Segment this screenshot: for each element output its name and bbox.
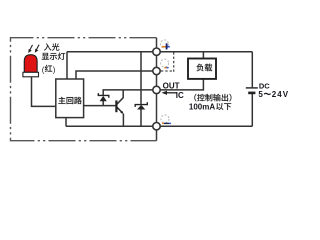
wire zener D2 anode to 0V rail	[140, 109, 142, 126]
terminal node 4	[153, 123, 160, 130]
wire 0V rail to battery minus	[66, 125, 252, 127]
wire main-circuit bottom to 0V rail	[65, 118, 67, 127]
annotation dashed circle at terminal 4	[161, 115, 169, 123]
enclosure right-side terminal bus	[156, 38, 158, 141]
wire terminal 2 to main-circuit top	[76, 71, 157, 79]
sensor enclosure dash-dot border	[11, 38, 157, 141]
svg-text:IC: IC	[176, 91, 184, 100]
wire battery plus lead	[251, 52, 253, 88]
wire +V rail from node A to battery	[67, 51, 252, 53]
label 入光	[44, 43, 51, 50]
load box 负载	[188, 59, 216, 79]
polarity label minus at terminal 4	[162, 123, 171, 124]
svg-text:): )	[53, 65, 56, 74]
wire OUT rail (collector to terminal 3 and load)	[103, 79, 203, 96]
terminal node 3	[153, 86, 160, 93]
svg-text:100mA: 100mA	[189, 102, 215, 111]
transistor Q1 (NPN output)	[116, 100, 123, 114]
svg-text:5: 5	[258, 90, 263, 99]
battery DC source plus plate	[246, 87, 258, 89]
wire battery minus lead	[251, 94, 253, 127]
annotation dashed circle at terminal 1	[160, 40, 168, 48]
wire zener D2 branch from +V rail	[140, 52, 142, 104]
svg-text:24V: 24V	[272, 90, 289, 99]
main circuit block U1 主回路	[56, 79, 84, 118]
dashed optional load link from terminal 2	[161, 52, 174, 72]
zener D1 anode lead	[102, 101, 104, 106]
svg-text:OUT: OUT	[163, 82, 180, 91]
wire base of Q1 from main circuit	[84, 105, 117, 107]
label （控制输出）	[194, 94, 196, 102]
polarity label plus at terminal 1	[162, 43, 170, 49]
zener diode D2 (surge protection)	[135, 102, 147, 109]
zener diode D1	[98, 93, 109, 101]
wire load top lead from +V rail	[202, 52, 204, 59]
terminal node 1	[153, 48, 160, 55]
polarity label minus at terminal 2	[164, 67, 168, 69]
annotation dashed circle at terminal 2	[161, 59, 169, 67]
battery DC source minus plate	[248, 92, 255, 95]
wire +V drop to main-circuit top	[66, 52, 68, 79]
wire emitter of Q1 to 0V rail	[122, 114, 124, 127]
incident light arrows	[29, 45, 39, 52]
terminal node 2	[153, 67, 160, 74]
label 显示灯	[42, 53, 49, 60]
LED indicator lamp (red)	[23, 55, 39, 77]
wire collector of Q1	[117, 90, 123, 104]
control output arrow	[162, 91, 177, 95]
wire LED cathode to main-circuit left	[32, 77, 56, 107]
svg-text:(: (	[42, 65, 45, 74]
